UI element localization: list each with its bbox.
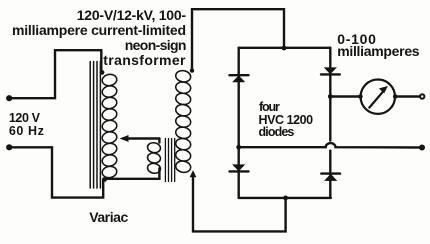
label: diodes text line 3 [259,126,294,139]
wire: bridge right side (lower) [329,151,331,198]
node: bridge left mid junction [236,145,241,150]
node: secondary top junction [190,68,194,72]
node: bridge right mid junction [328,94,333,99]
diode D3 top-right [321,67,340,74]
wire: secondary bottom to bridge bottom [193,174,286,232]
output terminal open circle top-right [420,94,424,98]
node: variac top junction [100,70,105,75]
label: 120 V [9,112,40,125]
variac winding T1 [101,73,117,179]
label: transformer description line 4 [103,53,186,67]
node: bridge top junction [282,46,287,51]
wire: meter to positive output [395,95,420,97]
wire: bottom input lead to variac bottom [9,147,103,197]
variac wiper arrow [120,135,160,142]
wire: top input lead to variac top [9,50,101,98]
transformer core laminations [165,139,174,182]
label: meter range line 2 [337,44,419,58]
wire: primary bottom to variac bottom [105,168,160,179]
transformer secondary winding [175,69,192,173]
label: diodes text line 2 [259,114,313,127]
node: bridge bottom junction [283,196,288,201]
node: meter left terminal [358,94,363,99]
label: meter range line 1 [337,32,377,46]
wire: bridge top rail [239,47,331,49]
wire: wiper to transformer primary top [158,139,160,143]
input terminal dot top-left [6,95,12,101]
wire: bridge to meter [330,95,360,97]
diode D2 bottom-left [230,164,249,171]
wire: bridge bottom rail [239,197,331,199]
wire: secondary top to bridge top [192,9,284,70]
variac core laminations [90,62,100,189]
wire: bridge left side [237,48,239,198]
label: 60 Hz [9,125,45,138]
label: transformer description line 1 [77,8,186,22]
label: Variac [89,210,128,224]
arrowhead: secondary bottom lead [190,170,197,177]
label: diodes text line 1 [259,101,279,114]
node: variac bottom junction [102,177,107,182]
node: meter right terminal [393,94,398,99]
diode D1 top-left [230,75,249,82]
wire: bridge right side (upper) [329,48,331,141]
wire: DC negative output with crossover hop [239,143,422,147]
transformer primary winding [147,142,162,175]
meter M1 body [361,80,395,114]
label: transformer description line 3 [125,38,186,52]
label: transformer description line 2 [12,23,186,37]
meter needle arrow [369,86,388,108]
diode D4 bottom-right [321,174,340,181]
output terminal dot bottom-right [419,145,425,151]
input terminal dot bottom-left [6,144,12,150]
